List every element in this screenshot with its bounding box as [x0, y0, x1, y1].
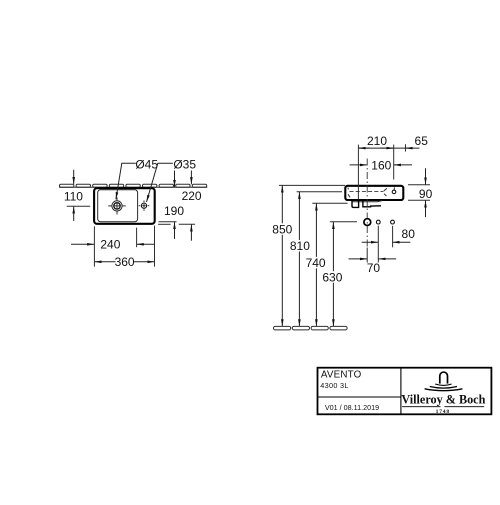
hidden bowl outline (dashed) [350, 190, 384, 192]
svg-text:V01 / 08.11.2019: V01 / 08.11.2019 [325, 403, 379, 412]
svg-text:810: 810 [290, 239, 310, 253]
extension lines below holes [366, 248, 368, 263]
svg-text:70: 70 [367, 261, 381, 275]
dimension 810 [298, 192, 300, 240]
horizontal divider [317, 396, 401, 398]
svg-text:220: 220 [182, 189, 202, 203]
extension line outlet center [357, 145, 359, 200]
wall tile segments [60, 184, 207, 187]
basin outer outline (plan) [94, 188, 155, 224]
dimension 240 (basin left to bowl right) [71, 243, 94, 245]
vertical divider [400, 368, 402, 414]
fixing hole right [391, 220, 395, 224]
dimension 190 (wall to inner bowl front) [174, 171, 176, 188]
tap hole center marks [139, 201, 150, 211]
svg-text:Ø35: Ø35 [173, 158, 196, 172]
svg-text:AVENTO: AVENTO [321, 369, 362, 380]
dimension 220 (overall depth) [190, 171, 192, 185]
wordmark underline [402, 406, 440, 408]
drain center marks [108, 197, 126, 214]
hidden dashes right [384, 188, 387, 191]
svg-text:850: 850 [272, 222, 292, 236]
svg-text:360: 360 [115, 255, 135, 269]
V&B logo ripple 2 [430, 387, 457, 389]
extension line 810 level [297, 191, 342, 193]
tap hole (plan) [141, 203, 146, 208]
outlet tab 1 (bold) [352, 201, 359, 208]
svg-text:Villeroy & Boch: Villeroy & Boch [401, 393, 485, 407]
basin inner bowl (plan) [98, 190, 138, 222]
underside profile line [351, 201, 381, 202]
drain hole (plan) [112, 201, 122, 211]
svg-text:190: 190 [164, 204, 184, 218]
extension line bowl right [136, 228, 138, 248]
svg-text:110: 110 [64, 190, 83, 204]
tap hole (front) [393, 187, 395, 189]
dimension 70 [349, 258, 368, 260]
extension line 850 level (rim top) [279, 184, 345, 186]
dimension 110 (wall to drain center) [73, 170, 75, 184]
svg-text:630: 630 [322, 270, 342, 284]
wall baseline [59, 186, 207, 188]
leader line for Ø45 label [116, 163, 136, 199]
dimension 630 [332, 222, 334, 271]
svg-text:90: 90 [419, 187, 433, 201]
basin body (front) [345, 186, 403, 200]
svg-text:65: 65 [415, 134, 429, 148]
fixing hole middle [376, 220, 380, 224]
extension line 740 level [312, 202, 347, 204]
extension line of inner bowl front edge [159, 221, 177, 223]
extension line basin right edge [405, 144, 407, 151]
V&B logo ripple 3 [425, 389, 463, 391]
floor tiles [274, 326, 348, 330]
V&B logo ripple 1 [435, 384, 451, 385]
V&B logo fountain arch [440, 372, 448, 384]
svg-text:80: 80 [402, 227, 416, 241]
dimension 850 [281, 185, 283, 223]
svg-text:160: 160 [371, 159, 391, 173]
svg-text:240: 240 [100, 237, 120, 251]
svg-text:Ø45: Ø45 [135, 157, 158, 171]
dimension 740 [315, 203, 317, 257]
wall drain hole (large circle) [364, 219, 371, 226]
hidden dashes left [347, 188, 350, 190]
svg-text:1748: 1748 [436, 409, 450, 415]
drain centerline (dash-dot) [366, 159, 368, 248]
svg-text:740: 740 [306, 256, 326, 270]
svg-text:210: 210 [367, 134, 387, 148]
outlet tab 2 (bold) [363, 201, 381, 207]
leader line for Ø35 label [147, 163, 173, 202]
extension line 630 level [330, 221, 357, 223]
dimension 90 (basin height) [408, 184, 430, 186]
title block outer frame [318, 368, 492, 415]
svg-text:4300 3L: 4300 3L [320, 381, 348, 390]
dimension 360 (overall width) [93, 226, 95, 266]
extension line tap hole center [393, 145, 395, 180]
extension line of outer front edge [158, 223, 171, 225]
